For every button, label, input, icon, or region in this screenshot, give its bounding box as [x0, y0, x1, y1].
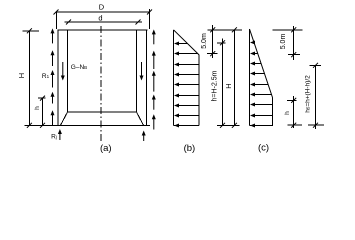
dimension D extension right — [149, 9, 151, 29]
dim slash H bottom — [27, 123, 32, 128]
caisson bottom line with dim ticks — [25, 124, 151, 126]
(b) pressure arrow 2 — [174, 52, 179, 56]
(c) slash 5.0m bottom — [291, 52, 296, 57]
(c) slash h bottom — [291, 123, 296, 128]
dimension D line — [56, 11, 150, 13]
friction arrow left 4 — [51, 92, 55, 97]
Rj reaction arrow right — [142, 131, 146, 136]
friction arrow right 1 — [152, 29, 156, 34]
(b) wall line — [173, 30, 175, 126]
dim slash D right — [147, 10, 152, 15]
(b) top extension line — [208, 29, 243, 31]
friction arrow left 3 — [51, 70, 55, 75]
caisson interior bottom line — [68, 111, 137, 113]
svg-text:5.0m: 5.0m — [280, 34, 287, 50]
(c) wall line — [249, 29, 251, 125]
(b) profile bottom edge — [174, 124, 199, 126]
dimension D extension left — [56, 12, 58, 29]
(c) slash h top — [291, 98, 296, 103]
cutting edge bevel right — [137, 112, 144, 125]
caisson outer wall right — [145, 30, 147, 125]
(c) pressure arrow 3 — [250, 62, 255, 66]
(c) pressure arrow 4 — [250, 72, 255, 76]
(c) top extension tick — [273, 29, 303, 31]
(b) pressure arrow 9 — [174, 124, 179, 128]
(b) slash 5.0m bottom — [210, 51, 215, 56]
weight arrow down left wall — [61, 76, 65, 81]
svg-text:G–NB: G–NB — [71, 64, 87, 71]
(c) pressure arrow 9 — [250, 124, 255, 128]
(c) slash h5 top — [313, 63, 318, 68]
svg-text:R1: R1 — [42, 73, 50, 80]
svg-text:H: H — [224, 83, 233, 88]
friction arrow left 2 — [51, 50, 55, 55]
svg-text:h5=h+(H-h)/2: h5=h+(H-h)/2 — [305, 75, 312, 113]
(b) pressure arrow 1 — [174, 42, 179, 46]
(c) h dim line — [293, 96, 295, 128]
(c) profile right edge — [272, 98, 274, 126]
svg-text:h: h — [34, 106, 41, 110]
friction arrow right 4 — [152, 95, 156, 100]
(b) h=H-2.5m top tick — [217, 42, 226, 44]
(c) pressure arrow 7 — [250, 103, 255, 107]
weight arrow down right wall — [140, 76, 144, 81]
(b) pressure arrow 4 — [174, 73, 179, 77]
(c) h5 top tick — [310, 64, 322, 66]
svg-text:(a): (a) — [100, 143, 112, 154]
(b) bottom tick line — [217, 124, 240, 126]
friction arrow left 1 — [51, 28, 55, 33]
(c) profile bottom edge — [250, 124, 273, 126]
dim slash H top — [27, 28, 32, 33]
(c) h5 bottom tick — [308, 124, 324, 126]
(b) pressure arrow 8 — [174, 114, 179, 118]
svg-text:d: d — [98, 14, 102, 23]
(c) 5.0m bottom tick — [288, 54, 300, 56]
(b) slash h bottom — [220, 123, 225, 128]
(b) slash H top — [232, 27, 237, 32]
(b) slash h top — [220, 40, 225, 45]
centerline of caisson — [100, 26, 102, 141]
(b) slash H bottom — [232, 123, 237, 128]
dim slash d left — [66, 20, 71, 25]
dim slash h bottom — [40, 123, 45, 128]
(c) slash 5.0m top — [291, 27, 296, 32]
caisson outer wall left — [57, 30, 59, 125]
friction arrow right 2 — [152, 51, 156, 56]
svg-text:h: h — [284, 111, 291, 115]
dim slash d right — [136, 20, 141, 25]
dimension h line — [42, 98, 44, 125]
svg-text:(b): (b) — [184, 143, 196, 154]
(c) h top tick — [287, 99, 297, 101]
(b) pressure arrow 6 — [174, 94, 179, 98]
(c) h5 dim line — [315, 65, 317, 129]
(c) h bottom tick — [288, 124, 303, 126]
(b) 5.0m dim line — [212, 25, 214, 58]
svg-text:5.0m: 5.0m — [201, 33, 208, 49]
(c) pressure arrow 6 — [250, 93, 255, 97]
(b) pressure arrow 3 — [174, 63, 179, 67]
(b) H dim line — [233, 30, 235, 126]
svg-text:D: D — [99, 3, 105, 12]
caisson top edge — [57, 29, 147, 31]
dim slash h top — [40, 96, 45, 101]
(c) profile diagonal — [250, 29, 273, 98]
(c) slash h5 bottom — [313, 123, 318, 128]
(b) pressure arrow 7 — [174, 104, 179, 108]
friction arrow right 3 — [152, 71, 156, 76]
(b) 5.0m bottom tick — [207, 53, 217, 55]
dimension H line — [28, 31, 30, 126]
(c) pressure arrow 8 — [250, 114, 255, 118]
(c) pressure arrow 1 — [250, 41, 255, 45]
(c) pressure arrow 5 — [250, 83, 255, 87]
(c) 5.0m dim line — [293, 26, 295, 60]
svg-text:(c): (c) — [258, 143, 269, 154]
dimension h top tick — [38, 97, 46, 99]
friction arrow right 5 — [152, 114, 156, 119]
caisson inner wall left — [67, 30, 69, 112]
dimension H top tick — [22, 30, 39, 32]
Rj reaction arrow left — [58, 129, 62, 134]
(b) profile right edge — [198, 55, 200, 126]
(b) profile diagonal — [174, 30, 199, 55]
caisson inner wall right — [136, 30, 138, 112]
cutting edge bevel left — [61, 112, 68, 125]
(b) slash 5.0m top — [210, 27, 215, 32]
dim slash D left — [54, 10, 59, 15]
dimension d line — [65, 21, 143, 23]
(b) h=H-2.5m dim line — [222, 39, 224, 126]
friction arrow left 5 — [51, 110, 55, 115]
svg-text:h=H-2.5m: h=H-2.5m — [212, 70, 219, 101]
svg-text:H: H — [17, 73, 26, 78]
svg-text:Rj: Rj — [51, 134, 57, 141]
(c) pressure arrow 2 — [250, 52, 255, 56]
(b) pressure arrow 5 — [174, 83, 179, 87]
